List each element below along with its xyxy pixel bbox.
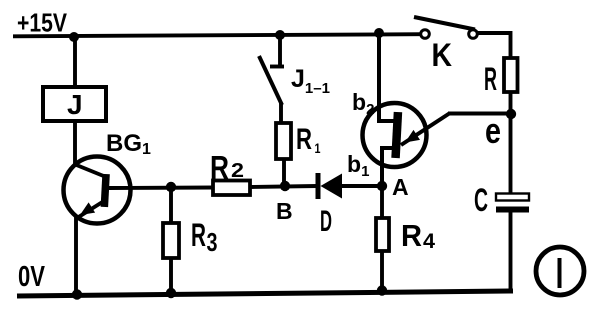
- svg-text:R: R: [210, 149, 229, 186]
- svg-text:R: R: [296, 123, 312, 156]
- svg-text:J: J: [67, 89, 83, 120]
- svg-text:R: R: [191, 217, 206, 253]
- svg-text:B: B: [276, 198, 293, 224]
- svg-text:e: e: [485, 110, 501, 151]
- svg-text:+15V: +15V: [17, 8, 68, 38]
- svg-text:0V: 0V: [18, 261, 45, 293]
- svg-text:C: C: [474, 182, 488, 218]
- svg-text:D: D: [320, 205, 332, 238]
- svg-text:1: 1: [315, 140, 321, 156]
- svg-text:3: 3: [207, 227, 218, 257]
- svg-text:R: R: [401, 218, 422, 253]
- svg-text:A: A: [392, 174, 409, 200]
- svg-text:K: K: [432, 37, 453, 73]
- svg-text:2: 2: [231, 160, 244, 182]
- svg-text:R: R: [484, 61, 497, 97]
- svg-text:4: 4: [423, 230, 435, 253]
